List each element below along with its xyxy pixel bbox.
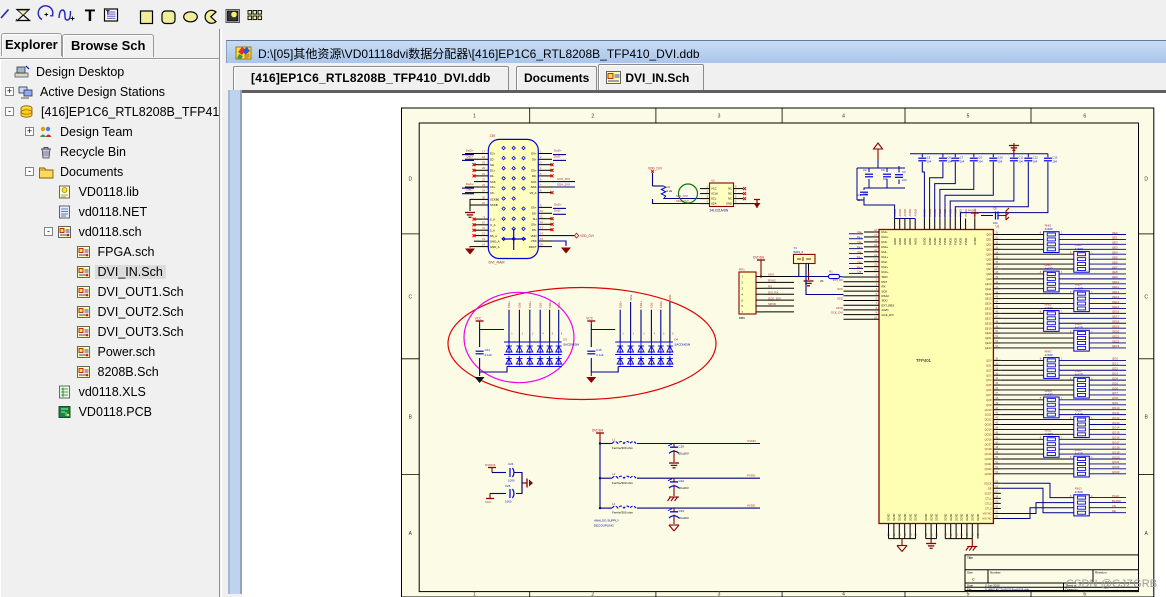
- svg-text:QE22: QE22: [985, 341, 992, 345]
- svg-text:QE19: QE19: [1112, 324, 1120, 328]
- svg-text:QO9: QO9: [1112, 401, 1118, 405]
- svg-text:D1+: D1+: [490, 169, 496, 173]
- sheet margin zone ticks and labels: [402, 108, 1154, 597]
- svg-text:SRVD: SRVD: [768, 302, 776, 306]
- svg-text:VSS: VSS: [531, 239, 537, 243]
- svg-text:QO12: QO12: [985, 418, 992, 422]
- svg-text:SCDT: SCDT: [984, 491, 991, 495]
- svg-text:QE13: QE13: [985, 297, 992, 301]
- svg-text:DaD+: DaD+: [554, 202, 562, 206]
- svg-text:QE8: QE8: [986, 272, 992, 276]
- svg-text:104: 104: [902, 178, 907, 182]
- svg-text:DaD-: DaD-: [554, 154, 561, 158]
- svg-text:10u16V: 10u16V: [679, 516, 689, 520]
- svg-text:QO1: QO1: [1112, 362, 1118, 366]
- svg-text:C11: C11: [1018, 156, 1023, 160]
- svg-text:NC: NC: [728, 192, 732, 196]
- svg-text:QO22: QO22: [1112, 465, 1120, 469]
- svg-text:DVI_RAM: DVI_RAM: [489, 261, 505, 265]
- svg-text:SACDN05M: SACDN05M: [563, 343, 579, 347]
- svg-text:PCLK: PCLK: [1112, 494, 1119, 498]
- svg-text:D: D: [409, 176, 413, 182]
- svg-text:D2-: D2-: [490, 158, 495, 162]
- svg-text:D5-: D5-: [532, 228, 537, 232]
- IC U1 top power pins: [895, 219, 975, 230]
- toolbar ellipse tool: [184, 12, 198, 22]
- svg-text:QO18: QO18: [985, 447, 992, 451]
- wires U1 control to RN13: [1001, 483, 1074, 518]
- svg-text:QO2: QO2: [986, 368, 992, 372]
- wires top cap drops: [922, 154, 1048, 168]
- svg-text:Rx2+: Rx2+: [882, 265, 889, 269]
- wire U2 GND pin: [743, 203, 757, 205]
- power label VDD_DVI at J1: [552, 233, 594, 238]
- svg-text:DGND: DGND: [930, 513, 933, 521]
- IC U2 body: [710, 183, 734, 207]
- svg-text:QE3: QE3: [986, 247, 992, 251]
- svg-text:C: C: [409, 294, 413, 300]
- svg-text:DaD-: DaD-: [466, 154, 473, 158]
- svg-text:QE16: QE16: [985, 311, 992, 315]
- svg-text:104: 104: [883, 177, 888, 181]
- capacitor C11: [1010, 156, 1024, 164]
- svg-text:RN03: RN03: [1045, 263, 1052, 267]
- svg-text:GCK_DVI: GCK_DVI: [768, 296, 781, 300]
- annotation red ellipse: [448, 288, 716, 400]
- svg-text:C20: C20: [679, 445, 685, 449]
- toolbar pie tool: [205, 10, 216, 23]
- svg-text:D0+: D0+: [531, 169, 537, 173]
- svg-text:RN10: RN10: [1075, 409, 1082, 413]
- svg-text:C: C: [1144, 294, 1148, 300]
- svg-text:AVDD: AVDD: [903, 238, 907, 245]
- svg-text:DaC-: DaC-: [466, 188, 473, 192]
- Browse Sch tab: [62, 34, 154, 57]
- svg-text:QE15: QE15: [985, 307, 992, 311]
- svg-text:2K: 2K: [820, 279, 824, 283]
- svg-text:QO2: QO2: [1112, 367, 1118, 371]
- svg-text:10u16V: 10u16V: [679, 452, 689, 456]
- svg-text:C10: C10: [998, 156, 1003, 160]
- svg-text:AVDD: AVDD: [893, 238, 897, 245]
- svg-text:SD1+: SD1+: [528, 301, 532, 309]
- toolbar polygon tool: [16, 10, 30, 22]
- svg-text:QO12: QO12: [1112, 416, 1120, 420]
- svg-text:5: 5: [967, 114, 970, 120]
- svg-text:RN06: RN06: [1075, 322, 1082, 326]
- svg-text:QE7: QE7: [1112, 265, 1118, 269]
- svg-text:24VD: 24VD: [882, 308, 889, 312]
- svg-text:Title: Title: [967, 556, 973, 560]
- IC Y1 oscillator body: [794, 254, 816, 263]
- svg-text:QO3: QO3: [1112, 371, 1118, 375]
- annotation magenta circle: [464, 292, 574, 382]
- svg-text:QO14: QO14: [985, 428, 992, 432]
- svg-text:D5+: D5+: [531, 223, 537, 227]
- svg-text:C13: C13: [1052, 156, 1057, 160]
- resistor network RN04: [1070, 283, 1093, 312]
- svg-text:QO4: QO4: [1112, 376, 1118, 380]
- svg-text:QO15: QO15: [985, 432, 992, 436]
- diode array D4: [615, 342, 673, 367]
- svg-text:QE12: QE12: [985, 292, 992, 296]
- power label DVDDA small: [485, 463, 496, 473]
- inductor L1 ferrite bead: [612, 437, 636, 450]
- svg-text:RN08: RN08: [1075, 369, 1082, 373]
- svg-text:RN02: RN02: [1075, 243, 1082, 247]
- svg-text:DGND: DGND: [966, 513, 969, 521]
- svg-text:SCK_DVI: SCK_DVI: [557, 177, 570, 181]
- wires U1 QE pin rows: [993, 232, 1126, 348]
- wire J1 VSS to ground: [552, 241, 566, 246]
- svg-text:D1-: D1-: [490, 174, 495, 178]
- svg-text:QE18: QE18: [1112, 320, 1120, 324]
- svg-text:SD0-: SD0-: [557, 302, 561, 309]
- connector J1 left net labels: [462, 149, 474, 194]
- svg-text:6: 6: [1083, 114, 1086, 120]
- svg-text:C23: C23: [679, 509, 685, 513]
- IC U2 pins: [700, 185, 746, 204]
- svg-text:DVI_RX: DVI_RX: [768, 290, 779, 294]
- svg-text:24LC21A/SN: 24LC21A/SN: [710, 209, 729, 213]
- svg-text:PVDD: PVDD: [954, 238, 958, 245]
- svg-text:C2: C2: [863, 168, 867, 172]
- document tabs: [226, 63, 1166, 90]
- svg-text:CK+: CK+: [490, 185, 496, 189]
- svg-text:D5-: D5-: [532, 212, 537, 216]
- svg-text:104: 104: [1018, 160, 1023, 164]
- svg-text:Rx1+: Rx1+: [882, 255, 889, 259]
- svg-text:File: File: [967, 588, 972, 592]
- svg-text:QE21: QE21: [985, 336, 992, 340]
- connector RP1 pins: [742, 275, 765, 314]
- svg-text:Rx1-: Rx1-: [882, 250, 888, 254]
- svg-text:Ferrite/300 ohm: Ferrite/300 ohm: [612, 446, 634, 450]
- IC U1 left pins TMDS group: [849, 229, 889, 274]
- net label AVDD: [747, 504, 756, 508]
- svg-text:4=62R: 4=62R: [1045, 227, 1053, 231]
- Explorer tab: [1, 33, 62, 56]
- resistor network RN12: [1070, 448, 1093, 477]
- svg-text:J3K: J3K: [490, 134, 497, 138]
- svg-text:QO8: QO8: [1112, 396, 1118, 400]
- svg-text:C24: C24: [508, 462, 514, 466]
- svg-text:QO17: QO17: [985, 442, 992, 446]
- svg-text:QO16: QO16: [1112, 436, 1120, 440]
- svg-text:DGND: DGND: [950, 513, 953, 521]
- svg-text:D0-: D0-: [532, 158, 537, 162]
- svg-text:D0-: D0-: [532, 174, 537, 178]
- svg-text:VDD_DVI: VDD_DVI: [648, 166, 662, 170]
- svg-text:T: T: [85, 6, 96, 25]
- svg-text:Rx0-: Rx0-: [882, 240, 888, 244]
- svg-text:DaD+: DaD+: [554, 149, 562, 153]
- svg-text:DGND: DGND: [888, 513, 891, 521]
- svg-text:4=62R: 4=62R: [1075, 286, 1083, 290]
- svg-text:QO11: QO11: [1112, 411, 1120, 415]
- wire J1 GND_A to ground: [470, 246, 474, 249]
- svg-text:SDA: SDA: [711, 202, 717, 206]
- svg-text:DE: DE: [988, 486, 992, 490]
- ground J1 right: [561, 248, 571, 254]
- svg-text:SCK: SCK: [882, 289, 888, 293]
- capacitor C14: [476, 348, 493, 357]
- svg-text:DVDD: DVDD: [933, 238, 937, 245]
- capacitor C8: [970, 156, 983, 164]
- window title bar: [226, 40, 1166, 63]
- power label VCC at D3: [475, 317, 484, 325]
- svg-text:SCKB: SCKB: [490, 203, 498, 207]
- svg-text:4=62R: 4=62R: [1045, 353, 1053, 357]
- svg-text:104: 104: [1052, 160, 1057, 164]
- wire VCC rail at D4: [591, 324, 618, 372]
- svg-text:GND: GND: [726, 202, 732, 206]
- svg-text:DaD-: DaD-: [554, 208, 561, 212]
- net labels SCL_DVI SDA_DVI at U2: [676, 194, 689, 203]
- capacitor C12: [1024, 156, 1038, 164]
- svg-text:D: D: [1144, 176, 1148, 182]
- svg-text:3: 3: [718, 114, 721, 120]
- svg-text:GND_A: GND_A: [490, 239, 500, 243]
- connector J1 designator: [490, 134, 497, 138]
- svg-text:QE18: QE18: [985, 321, 992, 325]
- net labels QE column: [985, 231, 1120, 350]
- svg-text:SCL: SCL: [711, 197, 717, 201]
- svg-text:4=62R: 4=62R: [1075, 247, 1083, 251]
- connector J1 right net labels SCK_DVI SDA_DVI: [552, 149, 575, 187]
- svg-text:C: C: [972, 578, 975, 582]
- svg-text:PVDD: PVDD: [747, 474, 756, 478]
- svg-text:QE10: QE10: [1112, 280, 1120, 284]
- svg-text:BLANK: BLANK: [1112, 499, 1121, 503]
- svg-text:DE: DE: [1112, 509, 1116, 513]
- svg-text:RN09: RN09: [1045, 389, 1052, 393]
- svg-text:QO19: QO19: [985, 452, 992, 456]
- svg-text:4: 4: [842, 114, 845, 120]
- svg-text:QE19: QE19: [985, 326, 992, 330]
- ground J1 left lower: [465, 249, 475, 255]
- IC U1 left pins control group: [831, 274, 895, 319]
- wire DVDDA rail: [599, 442, 601, 509]
- svg-text:ODCK: ODCK: [984, 481, 992, 485]
- svg-text:PVDD: PVDD: [938, 238, 942, 245]
- svg-text:QE5: QE5: [1112, 255, 1118, 259]
- svg-text:QE4: QE4: [1112, 251, 1118, 255]
- resistor network RN02: [1070, 243, 1093, 272]
- capacitor C5: [918, 156, 931, 164]
- wires U1 QO pin rows: [993, 358, 1126, 474]
- svg-text:5_A: 5_A: [490, 228, 495, 232]
- svg-text:4=62R: 4=62R: [1045, 267, 1053, 271]
- svg-text:104: 104: [947, 160, 952, 164]
- svg-text:EXT_RES: EXT_RES: [882, 303, 895, 307]
- svg-text:1000: 1000: [508, 479, 515, 483]
- svg-text:SCK: SCK: [531, 180, 537, 184]
- capacitor C23: [668, 508, 689, 520]
- svg-text:Rx0+: Rx0+: [882, 245, 889, 249]
- svg-text:AVDD: AVDD: [913, 238, 917, 245]
- svg-text:QO14: QO14: [1112, 426, 1120, 430]
- wire J1 SCKB to ground: [470, 199, 474, 211]
- toolbar text frame tool: [105, 9, 118, 21]
- svg-text:QO5: QO5: [1112, 381, 1118, 385]
- svg-text:D2+: D2+: [490, 152, 496, 156]
- svg-text:104: 104: [978, 160, 983, 164]
- svg-text:OVDD: OVDD: [973, 237, 977, 245]
- svg-text:QO18: QO18: [1112, 445, 1120, 449]
- wires TMDS lines into diode array D4: [620, 302, 670, 342]
- svg-text:SACDN05M: SACDN05M: [674, 343, 690, 347]
- svg-text:NC: NC: [728, 197, 732, 201]
- svg-text:DGND: DGND: [936, 513, 939, 521]
- svg-text:DaC+: DaC+: [466, 182, 474, 186]
- capacitor C24: [492, 462, 522, 494]
- svg-text:RP1: RP1: [739, 268, 745, 272]
- ground U1 bottom left: [897, 539, 907, 552]
- capacitor C13: [1044, 156, 1058, 164]
- svg-text:DECOUPLING: DECOUPLING: [594, 524, 615, 528]
- capacitor C6: [939, 156, 952, 164]
- svg-text:SCKB0: SCKB0: [490, 198, 500, 202]
- svg-text:QO6: QO6: [986, 388, 992, 392]
- net labels above diode array D4: [618, 294, 674, 336]
- svg-text:SD2-: SD2-: [518, 302, 522, 309]
- ground top bus: [1009, 143, 1019, 154]
- toolbar text tool: [85, 6, 96, 25]
- svg-text:QO15: QO15: [1112, 431, 1120, 435]
- IC U1 control pins: [982, 480, 1000, 520]
- wire ferrite row 1: [600, 443, 760, 445]
- svg-text:QO3: QO3: [986, 373, 992, 377]
- svg-text:QE8: QE8: [1112, 270, 1118, 274]
- svg-text:104: 104: [998, 160, 1003, 164]
- svg-text:DGND: DGND: [893, 513, 896, 521]
- wires RP1 to nets: [764, 273, 794, 312]
- toolbar bezier tool: [59, 10, 75, 21]
- svg-text:SDO: SDO: [837, 297, 844, 301]
- ground at D3: [475, 372, 485, 383]
- svg-text:DVDDA: DVDDA: [753, 256, 765, 260]
- resistor network RN01: [1040, 224, 1063, 253]
- svg-text:DGND: DGND: [955, 513, 958, 521]
- svg-text:L3: L3: [612, 472, 616, 476]
- svg-text:SD1+: SD1+: [639, 301, 643, 309]
- wire ferrite row 2: [600, 477, 760, 479]
- svg-text:C22: C22: [679, 479, 685, 483]
- svg-text:QE14: QE14: [985, 302, 992, 306]
- svg-text:U2: U2: [711, 179, 715, 183]
- svg-text:QE0: QE0: [1112, 231, 1118, 235]
- wire Y1 to U1 SCK: [806, 264, 844, 295]
- svg-text:104: 104: [927, 160, 932, 164]
- svg-text:SDA_DVI: SDA_DVI: [676, 199, 689, 203]
- connector J1 inner cross: [502, 229, 526, 250]
- svg-text:CTL2: CTL2: [985, 502, 992, 506]
- capacitor C15: [587, 348, 604, 357]
- svg-text:QE10: QE10: [985, 282, 992, 286]
- svg-text:QO6: QO6: [1112, 386, 1118, 390]
- svg-text:QO22: QO22: [985, 467, 992, 471]
- svg-text:AVDD: AVDD: [747, 504, 756, 508]
- connector J1 right net labels lower: [553, 202, 566, 214]
- resistor network RN10: [1070, 409, 1093, 438]
- ground ferrite row 3: [669, 515, 679, 531]
- svg-text:104: 104: [1033, 160, 1038, 164]
- svg-text:2: 2: [591, 114, 594, 120]
- svg-text:VCC: VCC: [475, 317, 482, 321]
- connector RP1 name: [739, 316, 745, 320]
- svg-text:0.1uF: 0.1uF: [596, 353, 604, 357]
- diode array D3: [504, 342, 562, 367]
- svg-text:DGND: DGND: [977, 513, 980, 521]
- svg-text:Ferrite/300 ohm: Ferrite/300 ohm: [612, 511, 634, 515]
- svg-text:SD0-: SD0-: [668, 294, 672, 301]
- svg-text:VDD_DVI: VDD_DVI: [580, 234, 594, 238]
- svg-text:AVDD: AVDD: [903, 209, 907, 216]
- svg-text:SH: SH: [533, 217, 537, 221]
- svg-text:QO20: QO20: [985, 457, 992, 461]
- svg-text:C7: C7: [960, 156, 964, 160]
- inductor L4 ferrite bead: [612, 502, 636, 515]
- toolbar array paste tool: [248, 11, 262, 20]
- svg-text:104: 104: [858, 198, 863, 202]
- svg-text:3: 3: [718, 592, 721, 597]
- resistor network RN05: [1040, 302, 1063, 331]
- svg-text:4=62R: 4=62R: [1075, 326, 1083, 330]
- svg-text:CTL3: CTL3: [985, 507, 992, 511]
- IC U1 TFP401 body: [879, 230, 993, 524]
- svg-text:SCK: SCK: [490, 180, 496, 184]
- IC U1 bottom ground pins: [888, 513, 980, 538]
- svg-text:D4: D4: [674, 338, 678, 342]
- svg-text:1: 1: [473, 114, 476, 120]
- svg-text:L1: L1: [612, 437, 616, 441]
- svg-text:SD2-: SD2-: [629, 294, 633, 301]
- svg-text:VCLK: VCLK: [711, 192, 718, 196]
- svg-text:ANALOG SUPPLY: ANALOG SUPPLY: [594, 519, 619, 523]
- connector J1 right pins group 1: [530, 149, 554, 194]
- resistor network RN11: [1040, 428, 1063, 457]
- svg-text:D0+: D0+: [531, 152, 537, 156]
- svg-text:QO23: QO23: [985, 472, 992, 476]
- svg-text:5: 5: [967, 592, 970, 597]
- svg-text:QO8: QO8: [986, 398, 992, 402]
- svg-text:DGND: DGND: [925, 513, 928, 521]
- svg-text:U1: U1: [996, 225, 1000, 229]
- svg-text:QE6: QE6: [1112, 260, 1118, 264]
- svg-text:RN01: RN01: [1045, 224, 1052, 228]
- connector J1 left pins: [465, 149, 500, 248]
- ground ferrite row 1: [669, 450, 679, 468]
- svg-text:QO5: QO5: [986, 383, 992, 387]
- svg-text:QE23: QE23: [985, 346, 992, 350]
- power label DVDDA at RP1: [753, 256, 765, 278]
- svg-text:PVDD: PVDD: [959, 238, 963, 245]
- capacitor C2: [863, 168, 873, 196]
- svg-text:C14: C14: [485, 348, 491, 352]
- toolbar rounded rect tool: [162, 11, 175, 24]
- svg-text:SDO: SDO: [882, 275, 889, 279]
- power AVDD arrow top: [874, 143, 883, 160]
- svg-text:C5: C5: [927, 156, 931, 160]
- svg-text:QE21: QE21: [1112, 334, 1120, 338]
- svg-text:QE2: QE2: [986, 242, 992, 246]
- toolbar arc tool: [38, 6, 53, 20]
- svg-text:QO7: QO7: [1112, 391, 1118, 395]
- svg-text:QE1: QE1: [986, 238, 992, 242]
- wire top decoupling bus: [910, 153, 1048, 155]
- svg-text:SDA_DVI: SDA_DVI: [557, 182, 570, 186]
